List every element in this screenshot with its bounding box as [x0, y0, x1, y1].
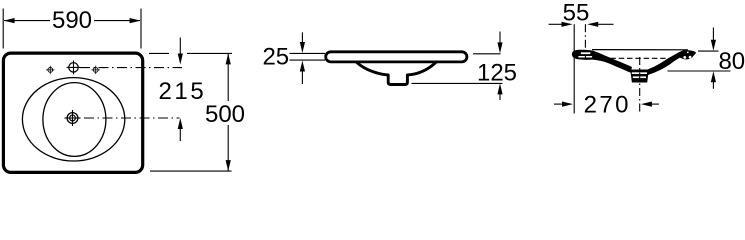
dimension 80 arrow top: [711, 28, 716, 51]
dimension 125 extension line top: [473, 53, 501, 55]
dimension 80 extension line top: [698, 50, 718, 52]
svg-text:270: 270: [584, 92, 631, 119]
dimension 25 arrow bottom: [300, 61, 305, 85]
rim curl right end: [677, 50, 696, 59]
dimension 500 extension line bottom: [150, 170, 232, 172]
dimension 590 extension line right: [140, 9, 142, 49]
left edge extension line (55/270, solid vertical): [573, 24, 575, 113]
dimension 270 arrow right: [641, 102, 659, 107]
dimension 500 line and arrows: [226, 53, 231, 171]
dimension 215 arrow top: [178, 38, 183, 65]
rim section front: [326, 52, 467, 62]
dimension 500 extension line top: [149, 52, 232, 54]
outer bowl ellipse: [22, 78, 124, 161]
dimension 125 extension line bottom: [412, 82, 503, 84]
dimension 25 arrow top: [300, 32, 305, 53]
faucet hole left: [46, 66, 54, 74]
faucet hole right: [92, 66, 100, 74]
dimension 55 arrow left: [549, 22, 573, 27]
rim and bowl wall left (cut section, solid wedge): [572, 50, 632, 73]
dimension 125 arrow top: [497, 32, 502, 54]
faucet centerline vertical dash-dot: [584, 24, 586, 59]
svg-text:55: 55: [563, 0, 590, 26]
rim slit lower (white): [578, 56, 592, 58]
rim top edge line (side view): [592, 49, 688, 51]
dimension 55 arrow right: [587, 22, 613, 27]
drain centerline dash-dot: [84, 117, 180, 119]
bowl section front: [356, 62, 436, 85]
svg-text:500: 500: [205, 101, 245, 128]
bowl wall right (cut section): [646, 50, 685, 76]
svg-text:125: 125: [477, 60, 517, 87]
svg-text:590: 590: [52, 7, 92, 34]
dimension 125 arrow bottom: [497, 83, 502, 100]
svg-text:80: 80: [718, 48, 745, 75]
dimension 590 line and arrows: [4, 18, 141, 23]
dimension 25 extension lines: [290, 53, 326, 60]
rim slit upper (white): [581, 52, 590, 54]
dimension 590 extension line left: [2, 9, 4, 49]
drain centerline vertical dash-dot: [639, 57, 641, 114]
faucet centerline dash-dot: [80, 67, 182, 69]
drain circle: [65, 110, 81, 126]
drain fitting (side section): [630, 70, 649, 83]
dimension 215 arrow bottom: [178, 118, 183, 141]
dimension 80 extension line bottom: [668, 70, 731, 72]
dimension 270 arrow left: [554, 102, 573, 107]
svg-text:25: 25: [262, 43, 289, 70]
faucet hole center: [67, 61, 81, 75]
waterline dashed: [610, 57, 670, 59]
basin outline top view: [3, 53, 142, 172]
svg-text:215: 215: [158, 78, 206, 105]
inner bowl ellipse: [43, 83, 106, 157]
dimension 80 arrow bottom: [711, 71, 716, 89]
